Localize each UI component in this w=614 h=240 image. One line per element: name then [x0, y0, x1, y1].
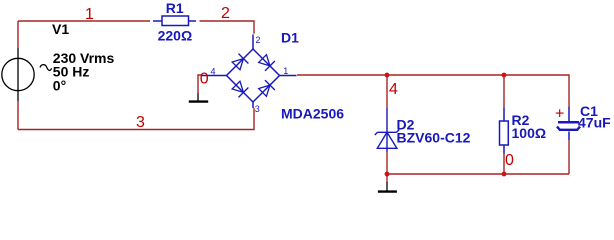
- svg-text:R1: R1: [166, 0, 184, 16]
- svg-text:1: 1: [85, 6, 94, 23]
- svg-text:100Ω: 100Ω: [512, 125, 547, 141]
- svg-text:D1: D1: [281, 30, 299, 46]
- svg-text:3: 3: [136, 114, 145, 131]
- svg-text:220Ω: 220Ω: [158, 27, 193, 43]
- svg-text:V1: V1: [52, 21, 69, 37]
- svg-text:+: +: [555, 106, 564, 123]
- svg-text:2: 2: [256, 35, 261, 45]
- svg-text:4: 4: [389, 81, 398, 98]
- svg-text:0: 0: [200, 71, 209, 88]
- svg-text:2: 2: [221, 5, 230, 22]
- svg-text:MDA2506: MDA2506: [281, 106, 344, 122]
- svg-text:1: 1: [283, 66, 288, 76]
- svg-text:3: 3: [255, 104, 260, 114]
- svg-text:0: 0: [505, 152, 514, 169]
- svg-text:BZV60-C12: BZV60-C12: [397, 130, 471, 146]
- svg-text:4: 4: [211, 67, 216, 77]
- svg-text:0°: 0°: [53, 77, 66, 93]
- svg-text:47uF: 47uF: [578, 114, 611, 130]
